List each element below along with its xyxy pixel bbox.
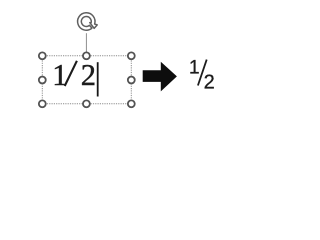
svg-text:2: 2 bbox=[204, 71, 215, 93]
text box dotted selection border bbox=[42, 56, 131, 104]
rotation handle icon bbox=[78, 13, 98, 30]
svg-text:1: 1 bbox=[189, 58, 200, 79]
svg-text:2: 2 bbox=[81, 58, 96, 92]
selection handles bbox=[39, 52, 135, 107]
svg-text:1: 1 bbox=[52, 58, 67, 92]
fraction slash bbox=[198, 60, 207, 86]
dotted connector to rotation handle bbox=[85, 33, 87, 52]
black block arrow bbox=[143, 62, 177, 92]
text cursor bbox=[97, 62, 99, 96]
slash of 1/2 bbox=[65, 61, 77, 86]
